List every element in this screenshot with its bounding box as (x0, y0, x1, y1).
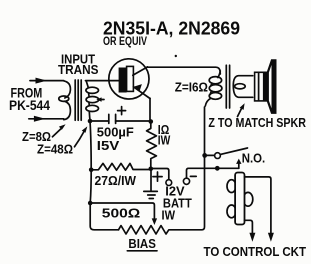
node junction secondary/cap (88, 119, 93, 124)
transformer T1 primary winding (64, 81, 71, 98)
switch S1 arm (220, 148, 247, 154)
node junction on minus wire (215, 166, 220, 171)
capacitor C1 500uF wires (90, 120, 151, 122)
tap arrow at secondary (100, 99, 104, 101)
resistor R3 500 ohm zigzag (119, 107, 205, 234)
svg-text:I5V: I5V (97, 138, 120, 153)
node junction emitter/cap (149, 119, 154, 124)
node junction bias pot top (88, 201, 93, 206)
svg-text:N.O.: N.O. (242, 151, 266, 166)
resistor R3 500 ohm bias pot wiper wire (90, 203, 154, 219)
wire T2 bottom to switch vertical (205, 98, 211, 106)
wire base (86, 80, 119, 82)
transformer T2 core (226, 65, 229, 108)
relay K1 right loop (243, 192, 253, 206)
svg-text:BIAS: BIAS (128, 236, 156, 251)
wire input bottom with arrow (29, 118, 64, 120)
svg-text:IW: IW (162, 208, 176, 223)
wire left vertical (90, 121, 119, 230)
wire input top with arrow (30, 80, 64, 82)
svg-text:TRANS: TRANS (58, 62, 99, 77)
switch S1 node (202, 153, 207, 158)
transformer T2 output primary winding (210, 71, 220, 95)
node junction left/27ohm (89, 168, 94, 173)
battery plus sign (153, 172, 162, 181)
wire emitter down (149, 98, 151, 121)
node junction emitter/ground/battery (149, 167, 154, 172)
relay K1 coil left loops (227, 180, 236, 193)
transformer T1 core (75, 80, 81, 120)
svg-text:IW: IW (158, 132, 171, 147)
wire relay bottom to control (245, 220, 253, 233)
transistor Q1 (109, 59, 149, 99)
relay K1 core (235, 173, 244, 225)
svg-text:Z TO MATCH SPKR: Z TO MATCH SPKR (208, 115, 306, 130)
resistor R1 1 ohm 1W (147, 122, 157, 169)
wire collector top rail (147, 67, 220, 74)
transformer T1 secondary winding (86, 81, 90, 120)
svg-text:TO CONTROL CKT: TO CONTROL CKT (204, 244, 307, 259)
transistor Q1 emitter line with arrow (133, 87, 150, 99)
speck (175, 55, 177, 57)
battery B1 12V wires and terminals (151, 169, 169, 180)
switch S1 contact circle (215, 153, 221, 159)
transistor Q1 collector line (133, 67, 148, 75)
ground (150, 169, 152, 191)
battery minus terminal (183, 178, 189, 184)
capacitor C1 plates (109, 114, 116, 123)
wire relay top to control (245, 177, 271, 233)
svg-text:27Ω/IW: 27Ω/IW (95, 173, 137, 188)
svg-text:OR EQUIV: OR EQUIV (103, 34, 147, 48)
svg-text:500Ω: 500Ω (102, 206, 141, 221)
capacitor C1 plus sign (118, 107, 126, 115)
transformer T2 secondary single loop (233, 76, 253, 98)
svg-text:Z=48Ω: Z=48Ω (37, 142, 73, 157)
svg-text:Z=I6Ω: Z=I6Ω (175, 79, 208, 94)
svg-text:PK-544: PK-544 (9, 98, 50, 114)
resistor R2 27ohm/1W (91, 163, 151, 170)
battery minus sign (190, 175, 196, 177)
switch S1 wire to contact (205, 154, 215, 156)
speaker SPKR (255, 72, 268, 101)
